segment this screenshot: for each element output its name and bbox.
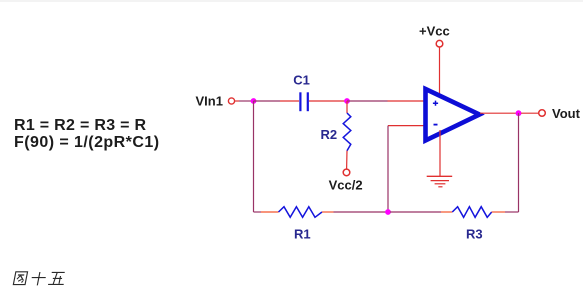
wire to op-amp + input [388, 100, 425, 102]
node junction D (bottom) [385, 209, 391, 215]
wire R2 top lead [346, 101, 348, 113]
wire Vin node to junction [239, 100, 254, 102]
wire junction D to R3 [390, 211, 441, 213]
wire op-amp inverting input [388, 125, 424, 127]
wire Vin1 stub [235, 100, 239, 102]
wire C1 right lead [309, 100, 345, 102]
ground [427, 130, 453, 187]
svg-text:F(90) = 1/(2pR*C1): F(90) = 1/(2pR*C1) [14, 134, 159, 151]
wire R3 right lead [492, 211, 505, 213]
node junction C (output) [516, 110, 522, 116]
wire left vertical [253, 101, 255, 212]
wire inverting node vertical [387, 126, 389, 212]
caption 图十五 (drawn glyphs) [13, 272, 66, 286]
op-amp U1 [426, 89, 480, 141]
terminal Vin1 [228, 98, 234, 104]
node junction A (Vin) [251, 98, 257, 104]
terminal Vcc/2 [343, 169, 350, 176]
svg-text:Vcc/2: Vcc/2 [329, 178, 363, 193]
wire bottom right corner [505, 211, 519, 213]
wire bottom left corner [254, 211, 262, 213]
svg-text:Vout: Vout [552, 106, 581, 121]
top hairline [0, 0, 583, 2]
svg-text:R2: R2 [321, 127, 338, 142]
wire R1 left lead [261, 211, 279, 213]
wire C1 left lead [280, 100, 299, 102]
terminal +Vcc [436, 40, 443, 47]
wire output vertical [518, 113, 520, 212]
capacitor C1 [300, 92, 307, 111]
svg-text:R1 = R2 = R3 = R: R1 = R2 = R3 = R [14, 117, 147, 134]
wire R1 to junction D [334, 211, 387, 213]
terminal Vout [539, 110, 546, 117]
五 [48, 272, 66, 284]
图 [13, 272, 27, 285]
svg-text:VIn1: VIn1 [196, 94, 223, 109]
wire R3 left lead [441, 211, 452, 213]
wire R2 bottom lead [346, 151, 348, 169]
wire junction B right [347, 100, 388, 102]
wire +Vcc to op-amp [439, 47, 441, 96]
wire op-amp output [480, 112, 516, 114]
resistor R3 [452, 207, 491, 218]
resistor R2 [343, 113, 351, 151]
svg-text:C1: C1 [293, 73, 310, 88]
wire R1 right lead [322, 211, 334, 213]
wire junction A to C1 [254, 100, 281, 102]
十 [30, 272, 47, 285]
svg-text:R1: R1 [294, 226, 311, 241]
svg-text:+Vcc: +Vcc [419, 23, 450, 38]
resistor R1 [279, 207, 323, 218]
wire output to Vout terminal [521, 112, 539, 114]
svg-text:R3: R3 [466, 227, 483, 242]
node junction B (non-inverting) [344, 98, 350, 104]
